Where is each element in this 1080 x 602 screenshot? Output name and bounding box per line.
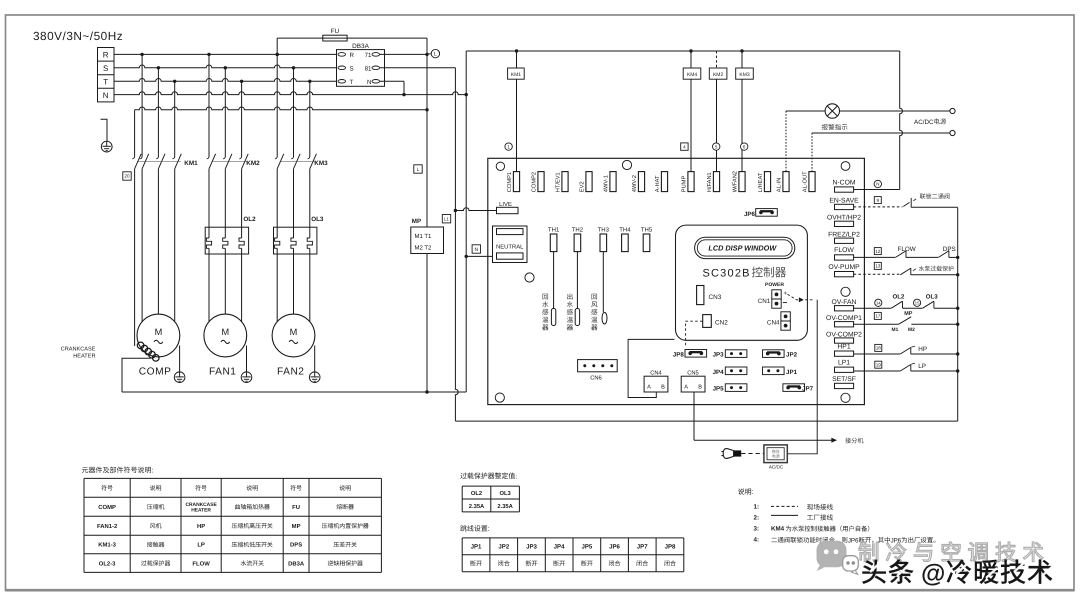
wire KM2 to OL2 [208, 169, 210, 238]
compressor protector MP contact [854, 311, 958, 333]
svg-text:KM4: KM4 [687, 72, 698, 78]
wire CN2 to JP8 (dashed) [686, 321, 703, 345]
svg-text:JP6: JP6 [744, 211, 756, 218]
node tag 20 [123, 172, 131, 180]
node pin 4 [681, 143, 688, 150]
wire heater feed rail [135, 107, 427, 110]
controller board SC302B outline [488, 158, 865, 404]
crankcase heater coil [61, 342, 159, 361]
temp sensor TH2 outlet water [575, 252, 579, 326]
node HP junction [956, 352, 959, 355]
terminal OV-PUMP [828, 264, 860, 277]
svg-text:T: T [103, 78, 108, 87]
connector CN3 [697, 286, 722, 305]
svg-text:JP7: JP7 [802, 386, 814, 393]
svg-text:JP8: JP8 [665, 544, 676, 551]
node fan overload junction [956, 307, 959, 310]
jumper JP2 [763, 350, 798, 359]
note 2 factory wiring [754, 514, 833, 521]
contactor coil KM3 (fan2) [736, 51, 754, 172]
svg-text:20: 20 [124, 174, 130, 179]
node L indicator circle [427, 49, 440, 57]
svg-text:N: N [103, 91, 109, 100]
svg-text:R: R [103, 50, 109, 59]
connector CN1 power [758, 282, 788, 308]
svg-text:CN6: CN6 [590, 375, 602, 382]
label return water sensor [542, 294, 548, 331]
label notes title [738, 488, 754, 496]
wire S-phase drops to contactors [157, 68, 159, 157]
svg-text:M: M [221, 327, 229, 337]
node tag 19 [875, 361, 882, 368]
wire CN4 to display module [628, 339, 674, 397]
svg-text:KM1-3: KM1-3 [98, 542, 116, 549]
temp sensor TH1 return water [551, 252, 555, 326]
svg-text:JP2: JP2 [786, 352, 798, 359]
svg-text:LP1: LP1 [838, 360, 850, 367]
svg-text:FLOW: FLOW [192, 560, 210, 567]
svg-text:CN3: CN3 [709, 294, 722, 301]
svg-text:LCD DISP WINDOW: LCD DISP WINDOW [708, 244, 777, 253]
wire KM3 to OL3 [276, 169, 278, 238]
svg-text:JP8: JP8 [673, 351, 685, 358]
wire T-phase drops to contactors [174, 81, 176, 156]
terminal LP1 [835, 360, 854, 373]
svg-text:R: R [350, 52, 355, 59]
node pump line junction [956, 273, 959, 276]
terminal AC/DC supply - [950, 130, 955, 135]
terminal N-COM [832, 179, 855, 192]
board top terminal strip [507, 171, 815, 192]
wire AL-OUT to AC/DC supply [812, 133, 950, 172]
svg-text:2:: 2: [754, 514, 760, 521]
overload contact OL2 [854, 293, 923, 308]
svg-text:OV-COMP1: OV-COMP1 [826, 315, 862, 322]
svg-text:JP4: JP4 [713, 369, 725, 376]
terminal OV-COMP1 [826, 315, 862, 327]
contactor coil KM2 (fan1, field wired) [709, 51, 727, 172]
label jumper setting title [460, 525, 489, 533]
svg-text:TH2: TH2 [572, 227, 584, 234]
svg-text:18: 18 [876, 346, 882, 351]
svg-text:JP3: JP3 [713, 352, 725, 359]
wire DB3A N output [380, 81, 404, 94]
wire heater to neutral bus [122, 358, 151, 392]
svg-text:L: L [417, 167, 420, 173]
LCD display window [695, 237, 795, 258]
svg-text:4:: 4: [754, 537, 760, 544]
svg-text:KM1: KM1 [511, 72, 522, 78]
node fuse tap on R rail [276, 53, 279, 56]
svg-text:MP: MP [292, 523, 301, 530]
svg-text:JP3: JP3 [526, 544, 537, 551]
svg-text:17: 17 [875, 314, 881, 319]
svg-text:6: 6 [743, 144, 746, 149]
svg-text:CN4: CN4 [767, 319, 780, 326]
node live line to bus [425, 390, 428, 393]
svg-text:KM4: KM4 [771, 526, 785, 533]
svg-text:CN4: CN4 [650, 370, 662, 377]
svg-text:OL3: OL3 [499, 490, 511, 497]
svg-text::: : [752, 489, 754, 496]
svg-text:OV-FAN: OV-FAN [832, 299, 857, 306]
node tag 18 [875, 344, 882, 351]
pump overload protection switch [854, 268, 958, 275]
contactor coil KM4 (pump) [683, 51, 701, 172]
svg-text:HEATER: HEATER [73, 353, 95, 359]
svg-text:POWER: POWER [765, 282, 784, 288]
overload relay OL3 [274, 216, 324, 321]
high pressure switch HP [854, 346, 958, 354]
svg-text:4: 4 [683, 144, 686, 149]
node flow line junction [956, 256, 959, 259]
svg-text:JP5: JP5 [713, 386, 725, 393]
node tag 14 [875, 299, 882, 306]
node tag N [472, 245, 480, 253]
svg-text:CN2: CN2 [715, 319, 728, 326]
phase-failure protector DB3A [337, 43, 385, 87]
note 4 two-way valve interlock jumper [754, 537, 936, 545]
svg-text:4WV-1: 4WV-1 [604, 175, 610, 192]
svg-text:N: N [876, 182, 879, 187]
svg-text:M2: M2 [908, 327, 915, 333]
compressor protector MP terminals [411, 218, 444, 254]
svg-text:FU: FU [331, 28, 340, 35]
svg-text:M: M [290, 327, 298, 337]
connector CN6 [578, 360, 618, 382]
terminal LIVE [497, 201, 519, 214]
terminal AC/DC supply + [950, 108, 955, 113]
terminal FLOW [834, 247, 854, 260]
svg-text:MP: MP [412, 218, 421, 225]
svg-text:SC302B: SC302B [703, 267, 751, 279]
svg-text:KM3: KM3 [314, 160, 328, 167]
jumper JP3 [713, 350, 747, 359]
connector CN4 display [767, 312, 790, 330]
display module outline [676, 225, 808, 340]
mains plug [721, 449, 764, 459]
svg-text:JP4: JP4 [554, 544, 565, 551]
svg-text:AC/DC: AC/DC [914, 119, 934, 126]
node heater rail live tap [425, 108, 428, 111]
svg-text:OV-PUMP: OV-PUMP [828, 264, 860, 271]
svg-text::: : [152, 468, 154, 475]
jumper JP8 [673, 350, 707, 359]
terminal block R S T N [98, 48, 115, 102]
svg-text:TH5: TH5 [641, 227, 653, 234]
svg-text:MP: MP [904, 311, 912, 317]
svg-text:M1 T1: M1 T1 [415, 233, 433, 240]
wire coil common down to N-COM [854, 51, 903, 190]
svg-text:JP1: JP1 [471, 544, 482, 551]
svg-text:COMP: COMP [139, 366, 172, 377]
differential pressure switch DPS [938, 246, 957, 257]
svg-text:FAN1-2: FAN1-2 [97, 523, 118, 530]
svg-text:TH4: TH4 [619, 227, 631, 234]
terminal FREZ/LP2 [828, 231, 860, 243]
label component symbol description title [82, 467, 154, 475]
terminal SET/SF [832, 376, 856, 389]
svg-text:COMP2: COMP2 [532, 172, 538, 192]
svg-text:NEUTRAL: NEUTRAL [496, 243, 524, 250]
contactor coil KM1 [508, 51, 525, 172]
wire KM1 to compressor [141, 169, 143, 322]
svg-text:HT/EV1: HT/EV1 [555, 172, 562, 192]
node tag L1 [442, 215, 450, 223]
svg-text:1: 1 [507, 144, 510, 149]
wire neutral rail [114, 92, 466, 95]
node L junction at DB3A 71 [425, 53, 428, 56]
svg-text:@: @ [921, 560, 945, 588]
svg-text:JP7: JP7 [637, 544, 648, 551]
connector CN4 external [644, 370, 668, 392]
svg-text:L/HEAT: L/HEAT [757, 172, 764, 192]
svg-text:TH3: TH3 [598, 227, 610, 234]
svg-text:OL2: OL2 [471, 490, 482, 497]
watermark toutiao text [863, 560, 1053, 588]
jumper setting table [462, 538, 684, 572]
flow switch FLOW [854, 246, 939, 257]
svg-text:AC/DC: AC/DC [769, 464, 784, 469]
svg-text:S: S [350, 65, 354, 72]
svg-text:4WV-2: 4WV-2 [632, 175, 638, 192]
svg-text:JP6: JP6 [609, 544, 620, 551]
svg-text:380V/3N~/50Hz: 380V/3N~/50Hz [33, 29, 123, 43]
svg-text:13: 13 [875, 264, 881, 269]
svg-text:DPS: DPS [290, 542, 302, 549]
label remote unit [845, 438, 863, 444]
wire DB3A 71 to fuse output [380, 53, 427, 55]
svg-text:KM1: KM1 [184, 160, 198, 167]
overload setting table [462, 486, 519, 512]
wire alarm lamp to AC/DC supply [840, 110, 950, 112]
svg-text:B: B [661, 384, 665, 390]
motor FAN1 [204, 314, 252, 382]
node pin 1 [505, 143, 512, 150]
svg-text:OV-COMP2: OV-COMP2 [826, 331, 862, 338]
label pump overload protection [919, 266, 954, 271]
svg-text:HEATER: HEATER [191, 507, 211, 513]
overload contact OL3 [923, 293, 958, 308]
svg-text:A: A [684, 384, 688, 390]
svg-text:CN5: CN5 [687, 370, 699, 377]
svg-text:+: + [783, 291, 787, 297]
contactor KM3 main contacts [275, 154, 328, 169]
wire neutral vertical [465, 51, 467, 392]
svg-text:B: B [698, 384, 702, 390]
sensor terminals TH1-TH5 [548, 227, 653, 252]
svg-text:DB3A: DB3A [288, 560, 305, 567]
svg-text:2.35A: 2.35A [469, 503, 485, 510]
svg-text:HP1: HP1 [837, 343, 850, 350]
wire phase S rail [114, 65, 337, 68]
svg-text::: : [488, 526, 490, 533]
node S-rail drops [157, 66, 160, 69]
low pressure switch LP [854, 363, 958, 371]
wire power adapter to CN1 [788, 300, 817, 454]
node neutral rail to vertical junction [465, 93, 468, 96]
label SC302B controller [703, 267, 786, 280]
svg-text:N: N [367, 79, 371, 86]
svg-text:TH1: TH1 [548, 227, 560, 234]
wire R-phase drops to contactors [141, 54, 143, 156]
svg-text:CRANKCASE: CRANKCASE [185, 502, 217, 508]
power adapter AC/DC [764, 445, 787, 470]
wire AL-IN to alarm lamp [786, 111, 825, 172]
wire CN5 to remote unit [694, 392, 837, 443]
svg-text:OL2-3: OL2-3 [99, 560, 116, 567]
svg-text:A-HAT: A-HAT [655, 175, 661, 192]
wire L1 to LIVE terminal [454, 208, 497, 213]
svg-text:CRANKCASE: CRANKCASE [61, 346, 96, 352]
wire R-phase up to fuse [276, 38, 278, 54]
note 3 KM4 pump contactor [754, 525, 870, 532]
svg-text:15: 15 [915, 300, 920, 305]
interlock two-way valve switch [854, 198, 958, 208]
svg-text:FAN2: FAN2 [277, 366, 304, 377]
temp sensor TH3 return air [602, 252, 607, 324]
terminal OV-COMP2 [826, 331, 862, 343]
svg-text:LP: LP [197, 542, 205, 549]
svg-text:KM2: KM2 [246, 160, 260, 167]
node T-rail drops [173, 80, 176, 83]
svg-text:KM2: KM2 [713, 72, 724, 78]
ground symbol at incoming [101, 119, 113, 152]
label alarm indication [822, 124, 848, 130]
wire switch collector vertical [957, 208, 959, 422]
motor FAN2 [272, 314, 320, 382]
jumper JP7 [783, 384, 814, 393]
node LP junction [956, 369, 959, 372]
svg-text:PUMP: PUMP [682, 176, 688, 193]
svg-text:JP1: JP1 [786, 369, 798, 376]
svg-text:M1: M1 [892, 327, 899, 333]
svg-text:JP6: JP6 [848, 537, 859, 544]
terminal HP1 [835, 343, 854, 356]
node neutral to DB3A junction [402, 93, 405, 96]
svg-text:FREZ/LP2: FREZ/LP2 [828, 231, 860, 238]
node tag 12 [874, 248, 881, 255]
svg-text:A: A [647, 384, 651, 390]
component symbol table [84, 478, 381, 572]
svg-text:EV2: EV2 [580, 181, 586, 192]
svg-text:OL3: OL3 [311, 216, 324, 223]
node tag L [414, 165, 422, 173]
svg-text::: : [515, 473, 517, 480]
overload relay OL2 [205, 216, 256, 321]
label AC/DC power [914, 118, 946, 125]
wire phase T rail [114, 79, 337, 82]
svg-text:12: 12 [875, 249, 881, 254]
watermark outline text [859, 542, 1043, 562]
wire neutral bottom bus [122, 391, 466, 393]
svg-text:OVHT/HP2: OVHT/HP2 [827, 214, 861, 221]
svg-text:S: S [103, 64, 108, 73]
svg-text:2.35A: 2.35A [497, 503, 513, 510]
contactor KM1 main contacts [132, 154, 198, 169]
svg-text:CN1: CN1 [758, 298, 771, 305]
label return air sensor [591, 294, 597, 331]
svg-text:M2 T2: M2 T2 [415, 245, 433, 252]
node tag 9 [874, 197, 881, 204]
svg-text:9: 9 [877, 198, 880, 203]
svg-text:FLOW: FLOW [834, 247, 854, 254]
svg-text:81: 81 [365, 65, 372, 72]
connector CN5 external [681, 370, 705, 392]
svg-text:L1: L1 [444, 216, 449, 221]
wire phase R rail [114, 53, 337, 55]
svg-text:71: 71 [365, 52, 372, 59]
wire fuse line to DB3A input [277, 37, 427, 39]
svg-text:T: T [350, 79, 354, 86]
svg-text:19: 19 [876, 362, 882, 367]
terminal NEUTRAL [493, 226, 528, 263]
svg-text:HP: HP [918, 346, 927, 353]
svg-text:N-COM: N-COM [832, 179, 855, 186]
svg-text:3:: 3: [754, 525, 760, 532]
jumper JP1 [763, 367, 798, 376]
wire live vertical L [426, 38, 428, 392]
svg-text:OL3: OL3 [926, 293, 938, 300]
svg-text:HP: HP [197, 523, 205, 530]
node pin 6 [741, 143, 748, 150]
svg-text:DB3A: DB3A [352, 43, 369, 50]
node tag N circle [874, 180, 881, 187]
wire heater pole down [134, 169, 136, 346]
node tag 15 [914, 299, 921, 306]
wire N to NEUTRAL terminal [465, 255, 493, 258]
svg-text:KM3: KM3 [739, 72, 750, 78]
svg-text:COMP1: COMP1 [507, 172, 513, 192]
svg-text:LP: LP [918, 363, 926, 370]
svg-text:EN-SAVE: EN-SAVE [829, 197, 859, 204]
jumper JP5 [713, 384, 747, 393]
svg-text:AL-IN: AL-IN [777, 178, 783, 193]
terminal EN-SAVE [829, 197, 859, 209]
jumper JP4 [713, 367, 747, 376]
svg-text:JP2: JP2 [498, 544, 509, 551]
svg-text:OL2: OL2 [893, 293, 905, 300]
svg-text:DPS: DPS [943, 246, 956, 253]
motor COMP compressor [137, 314, 185, 382]
svg-text:AL-OUT: AL-OUT [803, 171, 809, 192]
svg-text:COMP: COMP [98, 504, 116, 511]
svg-text:FAN1: FAN1 [209, 366, 236, 377]
svg-text:FLOW: FLOW [898, 246, 916, 253]
label overload setting title [460, 472, 517, 480]
terminal OVHT/HP2 [827, 214, 861, 226]
svg-text:W/FAN2: W/FAN2 [732, 171, 739, 192]
fuse FU [323, 28, 347, 41]
alarm indicator lamp [825, 104, 839, 118]
terminal OV-FAN [832, 299, 857, 311]
wire switched-live vertical L1 [455, 68, 957, 421]
connector CN2 [703, 315, 729, 328]
label interlock two-way valve [920, 193, 950, 199]
node tag 13 [874, 262, 881, 269]
svg-text:JP5: JP5 [581, 544, 592, 551]
svg-text:L: L [434, 52, 437, 58]
label outlet water sensor [567, 293, 573, 330]
svg-text:OL2: OL2 [243, 216, 256, 223]
svg-text:1:: 1: [754, 504, 760, 511]
svg-text:14: 14 [876, 300, 881, 305]
note 1 field wiring [754, 504, 833, 511]
wire heater pole drop [134, 110, 136, 157]
jumper JP6 [744, 209, 777, 218]
wire contactor coil common (to N) [466, 49, 900, 52]
svg-text:M: M [155, 327, 163, 337]
